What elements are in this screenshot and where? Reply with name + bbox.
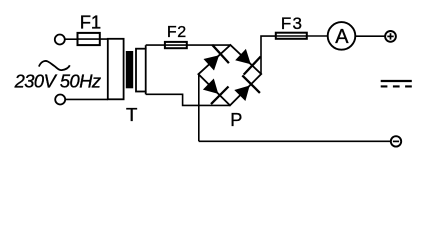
- wire ammeter to plus terminal: [355, 35, 385, 37]
- fuse F2: [165, 42, 187, 48]
- fuse F1: [78, 33, 100, 45]
- wire bridge plus vertex up to top-right rail: [261, 36, 276, 74]
- secondary top stub: [145, 45, 147, 49]
- svg-text:T: T: [126, 104, 137, 125]
- terminal minus output: [391, 136, 401, 146]
- wire top terminal to F1: [65, 38, 78, 40]
- diode D3 bottom-left triangle: [203, 79, 218, 94]
- secondary bottom stub: [145, 92, 147, 95]
- transformer T primary winding: [108, 39, 124, 100]
- svg-text:F1: F1: [80, 12, 101, 33]
- transformer T secondary winding: [136, 49, 146, 92]
- ammeter U1 circle: [328, 22, 356, 50]
- diode D4 bottom-right triangle: [234, 86, 249, 102]
- wire bottom terminal to transformer primary: [65, 98, 108, 100]
- bottom rail wire to minus terminal: [199, 140, 391, 142]
- diode D2 top-right cathode bar: [244, 57, 261, 75]
- wire secondary bottom run: [146, 94, 230, 105]
- svg-text:F2: F2: [167, 24, 187, 41]
- AC sine symbol: [39, 61, 70, 70]
- terminal plus output: [385, 31, 396, 42]
- bridge rectifier P diamond edges: [198, 45, 261, 105]
- diode D3 bottom-left cathode bar: [211, 87, 229, 105]
- diode D1 top-left triangle: [204, 55, 220, 70]
- wire F3 to ammeter: [307, 35, 328, 37]
- transformer T core: [126, 51, 133, 88]
- DC output symbol: [381, 80, 412, 82]
- wire through F3: [276, 35, 307, 37]
- wire through F1 to transformer primary: [78, 38, 108, 40]
- svg-text:230V 50Hz: 230V 50Hz: [14, 70, 101, 91]
- terminal top-left AC input: [55, 35, 65, 45]
- diode D4 bottom-right cathode bar: [242, 75, 260, 93]
- diode D1 top-left cathode bar: [212, 45, 229, 63]
- wire bridge minus vertex down to bottom rail: [198, 74, 200, 141]
- svg-text:P: P: [230, 110, 242, 130]
- wire secondary top to F2 and bridge top vertex: [146, 44, 231, 46]
- svg-text:A: A: [335, 26, 349, 48]
- terminal bottom-left AC input: [55, 95, 65, 105]
- diode D2 top-right triangle: [235, 49, 251, 64]
- fuse F3: [276, 33, 307, 39]
- svg-text:F3: F3: [281, 14, 303, 33]
